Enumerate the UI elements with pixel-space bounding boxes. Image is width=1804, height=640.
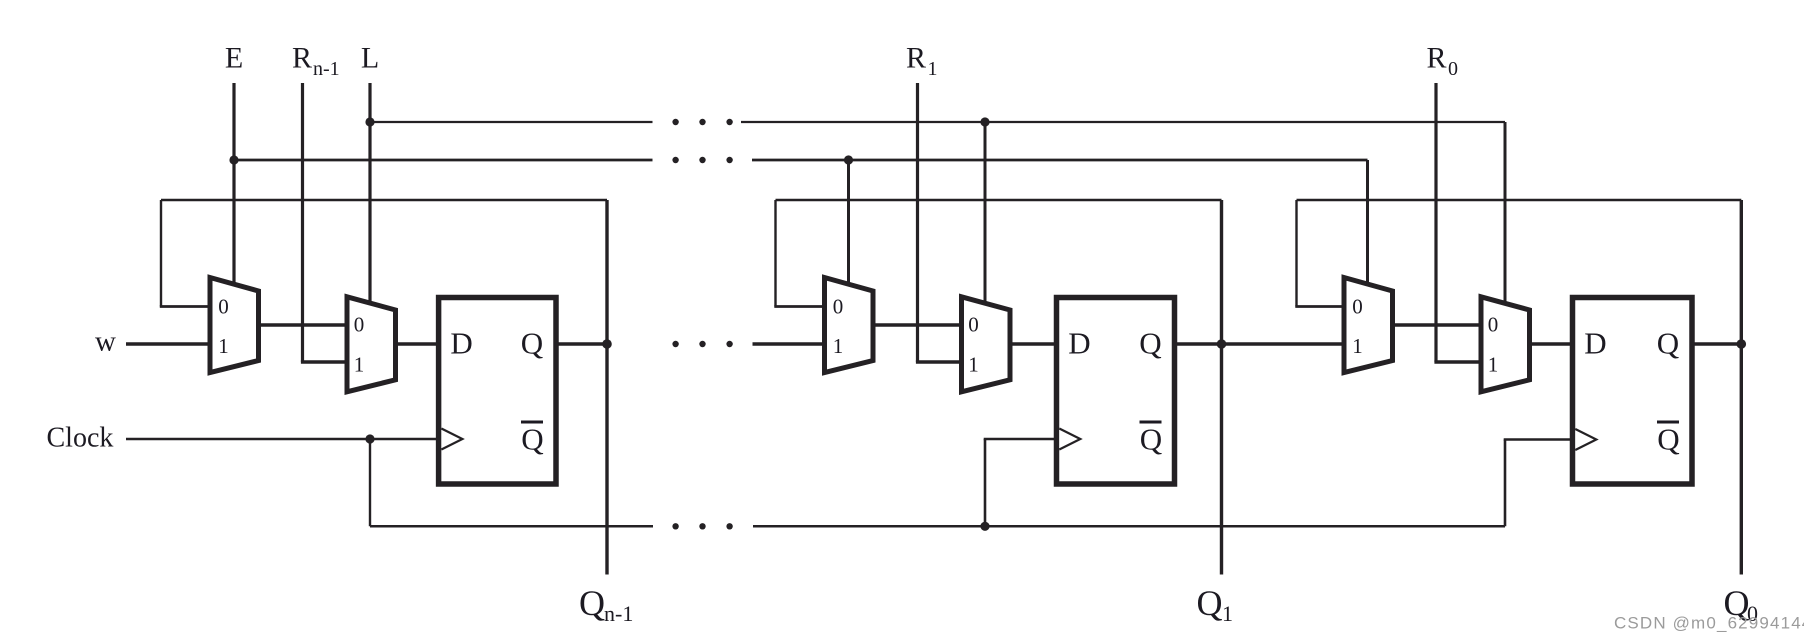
wire w input into mux U1a input 1 <box>126 342 212 345</box>
wire mux U1b output to FF1 D input <box>394 342 441 345</box>
wire Q feedback / output vertical stage 3 <box>1740 200 1743 575</box>
D flip-flop FF2 <box>1057 298 1175 485</box>
wire R0 elbow into mux U3b input 1 <box>1434 360 1483 363</box>
wire mux U1a output to mux U1b input 0 <box>257 323 350 326</box>
wire feedback left vertical stage 2 <box>774 200 776 307</box>
wire feedback left vertical stage 1 <box>160 200 162 307</box>
svg-text:1: 1 <box>1488 353 1499 377</box>
junction L-bus drop stage2 <box>980 117 989 126</box>
mux U1b (2-to-1 multiplexer, load stage) <box>347 297 396 392</box>
wire FF3 Q output to node <box>1690 342 1741 345</box>
svg-text:0: 0 <box>1488 313 1499 337</box>
svg-text:n-1: n-1 <box>604 601 633 626</box>
svg-text:Q: Q <box>1657 326 1679 361</box>
wire L-bus segment (ellipsis to stage3 corner) <box>741 121 1505 123</box>
wire clock riser stage 3 <box>1504 440 1507 527</box>
wire mux U3b output to FF3 D input <box>1528 342 1575 345</box>
svg-text:CSDN @m0_62994144: CSDN @m0_62994144 <box>1614 614 1804 633</box>
svg-text:Q: Q <box>521 422 543 457</box>
junction node Q0 <box>1737 339 1747 349</box>
wire clock riser stage 2 <box>984 439 987 526</box>
wire feedback into mux U1a input 0 <box>160 305 212 308</box>
ellipsis dots on data line <box>672 341 732 347</box>
mux U3b (2-to-1 multiplexer, load stage) <box>1481 297 1530 392</box>
ellipsis dots on clock bus <box>672 523 732 529</box>
D flip-flop FF3 <box>1573 298 1693 485</box>
wire feedback top horizontal stage 1 <box>161 199 607 201</box>
svg-text:R: R <box>1427 42 1447 75</box>
svg-text:0: 0 <box>1352 294 1363 318</box>
svg-text:R: R <box>292 42 312 75</box>
svg-text:Q: Q <box>1140 422 1162 457</box>
wire R1 vertical <box>916 83 919 362</box>
wire Clock input to FF1 clock pin <box>126 438 442 441</box>
svg-text:L: L <box>361 42 379 75</box>
svg-text:Q: Q <box>579 583 605 623</box>
svg-text:E: E <box>225 42 243 75</box>
wire E-bus drop into mux U2a select <box>847 160 850 286</box>
svg-text:D: D <box>1584 326 1606 361</box>
D flip-flop FF1 <box>439 298 556 485</box>
mux U3a (2-to-1 multiplexer, enable stage) <box>1344 278 1393 373</box>
wire E select vertical into mux U1a top <box>232 83 235 286</box>
wire L select vertical into mux U1b top <box>368 83 371 305</box>
junction node Q1 <box>1217 339 1227 349</box>
svg-text:Q: Q <box>1197 583 1223 623</box>
svg-text:1: 1 <box>968 353 979 377</box>
junction E line to E-bus <box>229 155 238 164</box>
wire Q feedback / output vertical stage 1 <box>605 200 608 575</box>
wire feedback into mux U3a input 0 <box>1295 305 1346 308</box>
svg-text:1: 1 <box>354 353 365 377</box>
mux U2b (2-to-1 multiplexer, load stage) <box>962 297 1011 392</box>
svg-text:n-1: n-1 <box>313 58 340 80</box>
junction clock tap stage2 <box>980 522 989 531</box>
wire feedback top horizontal stage 3 <box>1297 199 1742 201</box>
wire L-bus drop into mux U2b select <box>984 122 987 305</box>
wire R0 vertical <box>1434 83 1437 362</box>
wire mux U2a output to mux U2b input 0 <box>871 323 964 326</box>
svg-text:0: 0 <box>1448 58 1458 80</box>
ellipsis dots on E bus <box>672 157 732 163</box>
wire clock into FF2 clock pin <box>984 438 1060 441</box>
svg-text:1: 1 <box>833 334 844 358</box>
wire clock drop at stage1 <box>369 439 371 526</box>
wire L-bus segment (stage1 to ellipsis) <box>370 121 653 123</box>
junction L line to L-bus <box>365 117 374 126</box>
wire Rn-1 elbow into mux U1b input 1 <box>301 360 349 363</box>
wire clock bus segment (ellipsis to stage3) <box>753 525 1505 528</box>
wire E-bus drop into mux U3a select <box>1366 160 1369 286</box>
svg-text:Q: Q <box>1657 422 1679 457</box>
wire L-bus drop into mux U3b select <box>1504 122 1507 305</box>
ellipsis dots on L bus <box>672 119 732 125</box>
wire Q feedback / output vertical stage 2 <box>1220 200 1223 575</box>
svg-text:R: R <box>906 42 926 75</box>
wire clock bus segment (stage1 to ellipsis) <box>370 525 653 528</box>
svg-text:Q: Q <box>521 326 543 361</box>
svg-text:0: 0 <box>354 313 365 337</box>
wire mux U3a output to mux U3b input 0 <box>1391 323 1484 326</box>
wire data line resume into stage2 mux input 1 <box>753 342 826 345</box>
wire E-bus segment (ellipsis to stage3 corner) <box>752 159 1368 162</box>
wire E-bus segment (stage1 to ellipsis) <box>234 159 653 162</box>
svg-text:1: 1 <box>1352 334 1363 358</box>
svg-text:w: w <box>95 326 116 358</box>
svg-text:0: 0 <box>218 294 229 318</box>
wire R1 elbow into mux U2b input 1 <box>916 360 964 363</box>
svg-text:0: 0 <box>968 313 979 337</box>
svg-text:Clock: Clock <box>47 423 114 454</box>
mux U2a (2-to-1 multiplexer, enable stage) <box>825 278 874 373</box>
svg-text:Q: Q <box>1139 326 1161 361</box>
wire clock into FF3 clock pin <box>1504 438 1576 441</box>
wire feedback into mux U2a input 0 <box>774 305 826 308</box>
wire feedback left vertical stage 3 <box>1295 200 1297 307</box>
junction E-bus drop stage2 <box>844 155 853 164</box>
mux U1a (2-to-1 multiplexer, enable stage) <box>210 278 259 373</box>
junction node Qn-1 <box>602 339 612 349</box>
wire Rn-1 vertical <box>301 83 304 362</box>
svg-text:1: 1 <box>1222 601 1233 626</box>
wire FF1 Q output to node <box>554 342 607 345</box>
wire FF2 Q output to stage3 mux input 1 <box>1173 342 1346 345</box>
svg-text:1: 1 <box>218 334 229 358</box>
svg-text:1: 1 <box>928 58 938 80</box>
wire feedback top horizontal stage 2 <box>776 199 1222 201</box>
svg-text:D: D <box>450 326 472 361</box>
svg-text:D: D <box>1068 326 1090 361</box>
wire mux U2b output to FF2 D input <box>1008 342 1059 345</box>
svg-text:0: 0 <box>833 294 844 318</box>
junction clock tap stage1 <box>365 434 374 443</box>
